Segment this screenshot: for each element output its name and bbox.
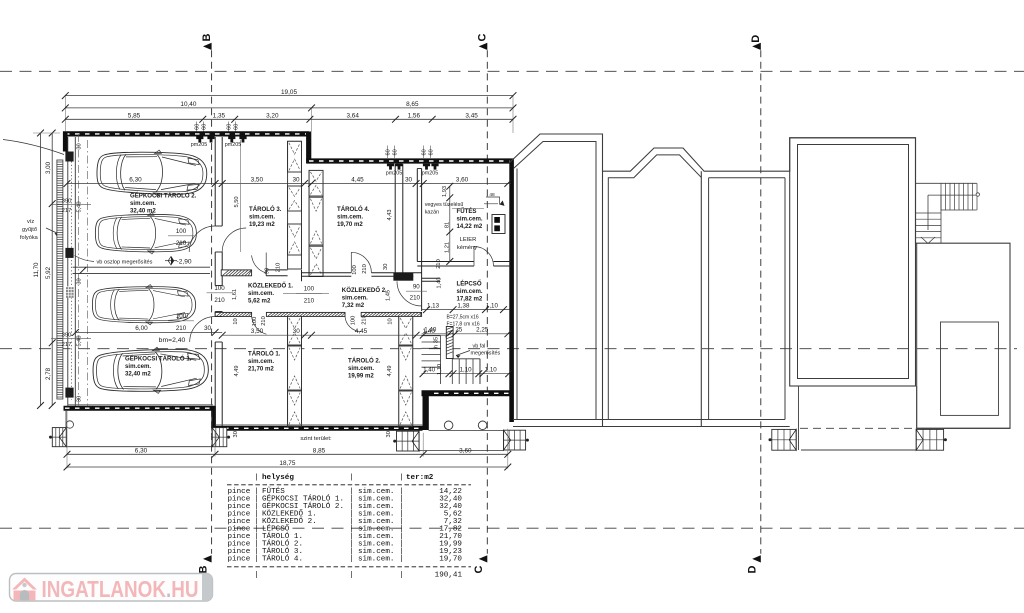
svg-text:100: 100	[351, 316, 357, 326]
shaft column B lower	[399, 316, 413, 426]
svg-text:D: D	[750, 35, 762, 43]
svg-text:210: 210	[362, 315, 368, 325]
horizontal section dashed line middle	[0, 348, 1017, 350]
svg-text:kémény: kémény	[457, 245, 477, 251]
svg-text:|: |	[349, 556, 354, 564]
svg-text:4,49: 4,49	[234, 365, 240, 376]
svg-text:3,00: 3,00	[45, 161, 52, 174]
svg-text:5,92: 5,92	[45, 266, 52, 279]
neighbor outline outer boundary	[509, 134, 1010, 428]
svg-text:210: 210	[176, 240, 187, 247]
svg-text:4,49: 4,49	[387, 365, 393, 376]
section line C	[486, 50, 488, 554]
svg-text:30: 30	[293, 328, 301, 335]
shaft column B upper	[309, 170, 323, 276]
svg-text:390: 390	[62, 199, 73, 205]
corridor 2 top wall	[302, 272, 352, 274]
svg-text:pm205: pm205	[225, 142, 241, 148]
svg-text:210: 210	[436, 259, 442, 269]
svg-text:2,78: 2,78	[45, 367, 52, 380]
T2 door arc	[345, 316, 361, 331]
wall: top wall A	[63, 131, 309, 136]
svg-text:1,21: 1,21	[444, 242, 450, 253]
svg-text:8,65: 8,65	[406, 101, 419, 108]
svg-text:100: 100	[352, 265, 358, 275]
T4 door arc	[351, 252, 371, 272]
svg-text:19,70: 19,70	[439, 556, 462, 564]
svg-text:KÖZLEKEDŐ 1.: KÖZLEKEDŐ 1.	[248, 283, 293, 290]
svg-text:90: 90	[413, 284, 420, 291]
svg-text:19,70 m2: 19,70 m2	[337, 221, 363, 228]
neighbor region3 inner right	[784, 178, 786, 420]
lower rooms dim line y=335.2	[222, 334, 449, 336]
neighbor divider 1	[602, 171, 604, 426]
svg-text:3,50: 3,50	[251, 176, 264, 183]
svg-text:8,85: 8,85	[313, 448, 326, 455]
svg-text:5,40: 5,40	[77, 201, 83, 212]
left outer dim line 1 (11,70)	[40, 133, 42, 406]
svg-text:210: 210	[362, 264, 368, 274]
svg-text:100: 100	[304, 286, 315, 293]
shaft column A upper	[288, 141, 302, 269]
garage lower dim line 6,00	[76, 331, 223, 333]
svg-text:1,61: 1,61	[232, 289, 238, 300]
horizontal section dashed line bottom	[0, 527, 1024, 529]
svg-text:30: 30	[386, 431, 392, 437]
horizontal section dashed line top	[0, 70, 1024, 72]
svg-text:TÁROLÓ 2.: TÁROLÓ 2.	[348, 357, 381, 365]
svg-text:5,62 m2: 5,62 m2	[248, 297, 271, 304]
svg-text:C: C	[477, 33, 489, 41]
svg-text:30: 30	[233, 431, 239, 437]
svg-text:17,82 m2: 17,82 m2	[457, 295, 483, 302]
wall: bottom wall of stair block	[422, 390, 514, 396]
T4 right wall	[394, 164, 396, 273]
neighbor exterior stairs top right	[916, 182, 977, 184]
bottom dim chain row 1	[66, 411, 68, 469]
svg-text:190,41: 190,41	[435, 572, 463, 580]
svg-text:100: 100	[214, 285, 225, 292]
neighbor divider 2	[700, 171, 702, 426]
svg-text:vb oszlop megerősítés: vb oszlop megerősítés	[97, 260, 153, 266]
garage mid dividing wall	[73, 266, 210, 268]
svg-text:4,45: 4,45	[351, 176, 364, 183]
svg-text:|: |	[349, 474, 354, 482]
svg-text:1,40: 1,40	[436, 277, 442, 288]
svg-text:ter:m2: ter:m2	[406, 474, 434, 482]
svg-text:1,35: 1,35	[213, 113, 226, 120]
wall: right wall	[509, 159, 514, 423]
svg-text:3,60: 3,60	[459, 448, 472, 455]
wall: top step right of wall A	[306, 132, 311, 164]
section line B	[211, 50, 213, 554]
svg-text:1,56: 1,56	[408, 113, 421, 120]
svg-text:INGATLANOK.HU: INGATLANOK.HU	[42, 576, 199, 602]
chimney block	[492, 215, 505, 234]
svg-text:bm=2,40: bm=2,40	[159, 337, 186, 344]
apron stair symbols	[52, 428, 66, 447]
vb fal leader arrow	[456, 351, 470, 356]
neighbor terrace stair symbols	[772, 429, 796, 450]
T1 door arc	[252, 316, 267, 334]
svg-text:folyóka: folyóka	[20, 235, 39, 241]
svg-text:TÁROLÓ 4.: TÁROLÓ 4.	[262, 554, 303, 564]
svg-text:6,30: 6,30	[129, 176, 142, 183]
svg-text:|: |	[399, 474, 404, 482]
svg-text:F=17,8 cm x16: F=17,8 cm x16	[447, 322, 480, 328]
svg-text:21,70 m2: 21,70 m2	[248, 365, 274, 372]
neighbor region1 inner	[514, 142, 597, 420]
svg-text:B: B	[201, 33, 213, 41]
svg-text:TÁROLÓ 3.: TÁROLÓ 3.	[262, 546, 303, 556]
svg-text:11,70: 11,70	[33, 262, 40, 278]
svg-text:pince: pince	[228, 556, 251, 564]
corridor 1 top wall with hatched lintel	[221, 270, 251, 276]
FUTES left wall	[416, 169, 418, 262]
garage right wall	[214, 137, 216, 226]
checker pillar below mid wall	[66, 287, 74, 298]
svg-text:30: 30	[77, 143, 83, 149]
svg-text:pm205: pm205	[422, 171, 438, 177]
svg-text:sim.cem.: sim.cem.	[249, 213, 275, 220]
svg-text:210: 210	[176, 325, 187, 332]
svg-text:60: 60	[201, 124, 207, 130]
vent marker 48	[486, 197, 500, 205]
svg-text:4,43: 4,43	[387, 209, 393, 220]
garage apron	[65, 411, 67, 447]
svg-text:1,13: 1,13	[427, 303, 440, 310]
svg-text:60: 60	[385, 149, 391, 155]
corridor bottom wall hatched segments	[215, 312, 251, 316]
svg-text:30: 30	[292, 176, 300, 183]
svg-text:60: 60	[226, 124, 232, 130]
svg-text:1,40: 1,40	[423, 367, 436, 374]
svg-text:TÁROLÓ 2.: TÁROLÓ 2.	[262, 539, 303, 549]
svg-text:1,10: 1,10	[485, 367, 498, 374]
svg-text:81: 81	[444, 222, 450, 228]
svg-text:|: |	[254, 556, 259, 564]
main interior dim chain y=183.5	[67, 183, 511, 185]
svg-text:TÁROLÓ 1.: TÁROLÓ 1.	[248, 350, 281, 358]
entrance terrace bottom right of plan	[428, 396, 430, 430]
svg-text:helység: helység	[262, 474, 294, 482]
svg-text:pm205: pm205	[386, 171, 402, 177]
leader curve top left	[3, 140, 64, 155]
pillar 60 dims wall B	[387, 146, 389, 159]
svg-text:kazán: kazán	[425, 210, 439, 216]
svg-text:210: 210	[261, 316, 267, 326]
svg-text:100: 100	[252, 317, 258, 327]
FUTES door arc	[474, 247, 494, 267]
wall: bottom mid wall	[212, 426, 423, 431]
svg-text:210: 210	[214, 297, 225, 304]
svg-text:sim.cem.: sim.cem.	[457, 288, 483, 295]
left outer dim line 2 (3,00 / 5,92 / 2,78)	[51, 133, 53, 406]
svg-text:60: 60	[233, 124, 239, 130]
wall pillar squares left	[65, 152, 73, 162]
svg-text:h 35: h 35	[434, 337, 440, 348]
svg-text:KÖZLEKEDŐ 2.: KÖZLEKEDŐ 2.	[342, 287, 387, 294]
svg-text:sim.cem.: sim.cem.	[248, 358, 274, 365]
svg-text:LÉPCSŐ: LÉPCSŐ	[457, 280, 482, 288]
svg-text:30: 30	[405, 176, 413, 183]
svg-text:GÉPKOCSI TÁROLÓ 1.: GÉPKOCSI TÁROLÓ 1.	[125, 355, 192, 363]
svg-text:|: |	[254, 572, 259, 580]
LEPCSO door arc	[397, 281, 422, 306]
svg-text:30: 30	[383, 264, 389, 270]
svg-text:|: |	[254, 474, 259, 482]
svg-text:szint terület:: szint terület:	[300, 436, 332, 442]
svg-text:19,05: 19,05	[281, 89, 297, 96]
svg-text:TÁROLÓ 3.: TÁROLÓ 3.	[249, 205, 282, 213]
wall: bottom wall garage	[64, 406, 216, 411]
car 3	[92, 285, 195, 325]
neighbor region2 inner	[608, 155, 701, 420]
svg-text:1,93: 1,93	[442, 186, 448, 197]
svg-text:|: |	[399, 556, 404, 564]
svg-text:C: C	[473, 565, 485, 573]
svg-text:6,30: 6,30	[135, 448, 148, 455]
stair area dim rows	[422, 309, 510, 311]
svg-text:2,25: 2,25	[476, 327, 489, 334]
svg-text:pm205: pm205	[191, 142, 207, 148]
svg-text:60: 60	[392, 149, 398, 155]
garage door arcs	[189, 226, 215, 252]
section line D	[760, 50, 762, 554]
svg-text:1,10: 1,10	[437, 364, 443, 375]
svg-text:210: 210	[276, 263, 282, 273]
svg-text:B: B	[197, 565, 209, 573]
svg-text:4,45: 4,45	[355, 328, 368, 335]
svg-text:sim.cem.: sim.cem.	[248, 290, 274, 297]
neighbor terrace below block 4	[798, 386, 800, 450]
svg-text:210: 210	[410, 295, 421, 302]
svg-text:390: 390	[62, 333, 73, 339]
neighbor big block 4	[790, 138, 916, 386]
drain channel hatched band	[57, 160, 63, 399]
car 2	[95, 212, 196, 254]
svg-text:víz: víz	[27, 219, 34, 225]
svg-text:7,32 m2: 7,32 m2	[342, 302, 365, 309]
svg-text:5,50: 5,50	[234, 196, 240, 207]
svg-text:GÉPKOCSI TÁROLÓ 1.: GÉPKOCSI TÁROLÓ 1.	[262, 494, 344, 504]
svg-text:30: 30	[77, 396, 83, 402]
FUTES bottom wall	[417, 261, 474, 263]
svg-text:5,40: 5,40	[77, 335, 83, 346]
svg-text:sim.cem.: sim.cem.	[342, 294, 368, 301]
svg-text:19,99 m2: 19,99 m2	[348, 372, 374, 379]
svg-text:vegyes tüzelésű: vegyes tüzelésű	[425, 202, 464, 208]
svg-text:TÁROLÓ 1.: TÁROLÓ 1.	[262, 531, 303, 541]
svg-text:5,85: 5,85	[128, 113, 141, 120]
svg-text:32,40 m2: 32,40 m2	[125, 370, 151, 377]
svg-text:B=27,5cm x16: B=27,5cm x16	[447, 315, 479, 321]
pillar 60 dims wall A	[196, 122, 198, 132]
svg-text:D: D	[747, 565, 759, 573]
svg-text:10: 10	[233, 318, 239, 324]
svg-text:6,00: 6,00	[135, 325, 148, 332]
svg-text:TÁROLÓ 4.: TÁROLÓ 4.	[337, 205, 370, 213]
top dimension chain rows	[64, 96, 66, 131]
svg-text:30: 30	[77, 278, 83, 284]
svg-text:100: 100	[176, 228, 187, 235]
svg-text:sim.cem.: sim.cem.	[125, 363, 151, 370]
axis dash-dot lines in garage	[78, 134, 80, 406]
svg-text:sim.cem.: sim.cem.	[130, 200, 156, 207]
svg-text:18,75: 18,75	[279, 460, 295, 467]
svg-text:19,23 m2: 19,23 m2	[249, 221, 275, 228]
wall: vertical connector stair block	[423, 391, 429, 431]
wall: left wall top corner piece	[63, 132, 68, 152]
door dim 100/210 corridor2 line	[283, 292, 329, 294]
svg-text:sim.cem.: sim.cem.	[348, 365, 374, 372]
svg-text:3,50: 3,50	[251, 328, 264, 335]
neighbor outline bottom edge	[513, 426, 790, 428]
svg-text:|: |	[399, 572, 404, 580]
pillars wall B	[387, 164, 394, 170]
wall: top wall B	[306, 158, 513, 163]
svg-text:3,64: 3,64	[346, 113, 359, 120]
car 4	[92, 346, 208, 395]
svg-text:1,38: 1,38	[457, 303, 470, 310]
svg-text:megerősítés: megerősítés	[471, 351, 501, 357]
svg-text:1,10: 1,10	[486, 303, 499, 310]
svg-text:217: 217	[62, 208, 72, 214]
svg-text:32,40 m2: 32,40 m2	[130, 207, 156, 214]
svg-text:1,10: 1,10	[460, 367, 473, 374]
wall: bottom step left	[211, 406, 216, 431]
garage left wall double line	[67, 137, 69, 406]
svg-text:60: 60	[421, 149, 427, 155]
svg-text:10,40: 10,40	[180, 101, 196, 108]
stair flight left	[422, 335, 441, 337]
svg-text:90: 90	[265, 268, 271, 274]
svg-text:3,60: 3,60	[456, 176, 469, 183]
svg-text:217: 217	[62, 342, 72, 348]
svg-text:3,45: 3,45	[465, 113, 478, 120]
stair flight bottom	[451, 359, 453, 384]
svg-text:3,20: 3,20	[266, 113, 279, 120]
svg-text:60: 60	[428, 149, 434, 155]
svg-text:30: 30	[204, 325, 212, 332]
svg-text:14,22 m2: 14,22 m2	[457, 223, 483, 230]
bottom dim chain row 2	[67, 466, 508, 468]
svg-text:sim.cem.: sim.cem.	[457, 215, 483, 222]
svg-text:GÉPKOCSI TÁROLÓ 2.: GÉPKOCSI TÁROLÓ 2.	[262, 501, 344, 511]
svg-text:10: 10	[388, 318, 394, 324]
svg-text:48: 48	[489, 192, 495, 198]
T3 door arc	[252, 253, 267, 274]
svg-text:1,40: 1,40	[424, 327, 437, 334]
svg-text:25: 25	[455, 327, 462, 334]
reinforced wall hatch	[446, 327, 453, 359]
svg-text:vb fal: vb fal	[473, 344, 486, 350]
logo house icon	[12, 578, 37, 590]
neighbor block 5	[916, 243, 918, 428]
svg-text:gyűjtő: gyűjtő	[22, 227, 37, 233]
ingatlanok.hu watermark logo	[10, 574, 213, 602]
svg-text:sim.cem.: sim.cem.	[337, 213, 363, 220]
car 1	[96, 148, 207, 198]
svg-text:|: |	[349, 572, 354, 580]
svg-text:210: 210	[304, 298, 315, 305]
svg-text:-2,90: -2,90	[177, 259, 192, 266]
svg-text:GÉPKOCSI TÁROLÓ 2.: GÉPKOCSI TÁROLÓ 2.	[130, 192, 197, 200]
svg-text:60: 60	[194, 124, 200, 130]
pillars wall A	[196, 137, 203, 143]
shaft column A lower	[288, 316, 302, 426]
svg-text:100: 100	[176, 313, 187, 320]
FUTES vertical dim line	[449, 186, 451, 261]
svg-text:LEIER: LEIER	[460, 237, 477, 243]
svg-text:sim.cem.: sim.cem.	[358, 556, 394, 564]
